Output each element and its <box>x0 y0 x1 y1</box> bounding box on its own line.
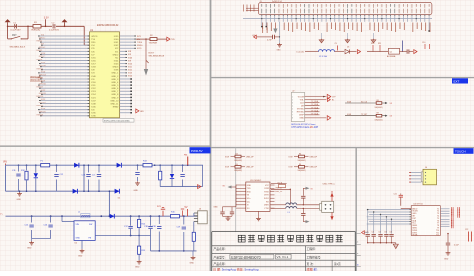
svg-text:IO3: IO3 <box>128 54 131 56</box>
svg-text:R15: R15 <box>142 250 145 252</box>
svg-text:产: 产 <box>357 252 359 255</box>
svg-text:GND: GND <box>27 248 32 250</box>
svg-text:10K(0402): 10K(0402) <box>298 160 306 162</box>
svg-text:工程师编号:: 工程师编号: <box>307 255 322 259</box>
svg-text:IO19: IO19 <box>41 81 45 83</box>
svg-text:U3 CH340C: U3 CH340C <box>250 180 262 182</box>
svg-text:C20: C20 <box>365 231 368 233</box>
svg-text:RST: RST <box>12 35 17 37</box>
svg-text:TP_SDA: TP_SDA <box>311 100 319 103</box>
svg-text:GPIO7: GPIO7 <box>39 56 45 58</box>
svg-text:C24: C24 <box>389 231 392 233</box>
svg-text:日 期: 5mingAug 修改: 5mingAug: 日 期: 5mingAug 修改: 5mingAug <box>213 266 259 271</box>
svg-text:GPIO19: GPIO19 <box>39 93 46 95</box>
svg-text:USB_DP: USB_DP <box>310 156 318 158</box>
svg-text:MIPI-DSI-FPC6P-0.5mm: MIPI-DSI-FPC6P-0.5mm <box>291 124 315 126</box>
svg-text:GND: GND <box>299 118 304 120</box>
svg-text:R4: R4 <box>236 164 238 166</box>
svg-text:VDDA: VDDA <box>412 234 418 237</box>
svg-text:IO19: IO19 <box>289 156 293 158</box>
svg-text:V3: V3 <box>247 195 249 197</box>
svg-text:SW: SW <box>89 224 92 226</box>
svg-text:LCD_BL: LCD_BL <box>297 51 305 53</box>
svg-text:IO4: IO4 <box>41 35 44 37</box>
svg-text:R4: R4 <box>299 154 301 156</box>
svg-text:TP_INT: TP_INT <box>361 114 368 116</box>
svg-text:2x20P-2.54: 2x20P-2.54 <box>272 1 282 3</box>
svg-text:GND_10: GND_10 <box>110 100 119 102</box>
svg-text:ESP32-8048S070: ESP32-8048S070 <box>231 255 261 259</box>
svg-text:NC: NC <box>115 57 119 59</box>
svg-text:IO19: IO19 <box>289 167 293 169</box>
svg-text:产品型号:: 产品型号: <box>214 255 226 259</box>
svg-text:HSYNC: HSYNC <box>297 112 305 114</box>
svg-text:TXD: TXD <box>171 39 175 41</box>
svg-text:GND: GND <box>17 199 22 201</box>
svg-text:GND: GND <box>247 185 252 187</box>
svg-text:10K(0402): 10K(0402) <box>375 107 383 109</box>
svg-text:AO3400A: AO3400A <box>387 55 396 58</box>
svg-text:GND: GND <box>213 206 218 208</box>
svg-text:BOOT: BOOT <box>149 53 155 55</box>
svg-text:VCC: VCC <box>265 185 270 187</box>
svg-text:R232: R232 <box>264 188 269 190</box>
svg-text:Q1: Q1 <box>390 51 393 53</box>
svg-text:R10: R10 <box>371 43 374 45</box>
svg-text:IO22: IO22 <box>41 90 45 92</box>
svg-text:TP_SDA: TP_SDA <box>311 109 319 112</box>
svg-text:GND_3: GND_3 <box>111 79 119 81</box>
svg-text:C21: C21 <box>394 194 397 196</box>
svg-text:USB_D-: USB_D- <box>275 188 282 190</box>
svg-text:3.3: 3.3 <box>390 103 393 105</box>
svg-text:U4 GT911: U4 GT911 <box>413 204 423 206</box>
svg-text:D5: D5 <box>347 47 349 49</box>
svg-text:GPIO13: GPIO13 <box>39 74 46 76</box>
svg-text:IO28: IO28 <box>41 108 45 110</box>
svg-text:USB_DP: USB_DP <box>310 167 318 169</box>
svg-text:10K(0402): 10K(0402) <box>298 170 306 172</box>
svg-text:IO9: IO9 <box>128 60 131 62</box>
svg-text:TXD: TXD <box>247 188 251 190</box>
svg-text:TXD/R0R: TXD/R0R <box>149 43 158 45</box>
svg-text:页 次:: 页 次: <box>307 262 314 266</box>
svg-text:IO13: IO13 <box>41 62 45 64</box>
svg-text:GND_1: GND_1 <box>111 73 119 75</box>
svg-text:GND_4: GND_4 <box>111 82 119 84</box>
svg-text:5V: 5V <box>185 206 188 209</box>
svg-text:D4: D4 <box>118 198 120 200</box>
svg-text:IO25: IO25 <box>41 99 45 101</box>
svg-text:IO11: IO11 <box>128 67 132 69</box>
svg-text:IO12: IO12 <box>128 70 132 72</box>
svg-text:R0R(1K): R0R(1K) <box>32 30 41 32</box>
svg-text:VIN: VIN <box>3 162 7 164</box>
svg-text:EXIO20: EXIO20 <box>37 96 44 98</box>
svg-text:GND: GND <box>135 267 140 269</box>
svg-text:C23: C23 <box>384 231 387 233</box>
svg-text:TP_SDA: TP_SDA <box>311 106 319 109</box>
svg-text:IO46: IO46 <box>128 57 132 59</box>
svg-text:IO08: IO08 <box>347 114 351 116</box>
svg-text:IO10: IO10 <box>41 53 45 55</box>
svg-text:产: 产 <box>357 241 359 244</box>
svg-text:0.1uF: 0.1uF <box>454 245 460 247</box>
svg-text:0.1uF/16V: 0.1uF/16V <box>11 30 22 32</box>
svg-text:GND: GND <box>78 256 83 258</box>
svg-text:EXIO26: EXIO26 <box>37 114 44 116</box>
svg-text:C22: C22 <box>378 231 381 233</box>
svg-text:产品名称:: 产品名称: <box>214 247 226 251</box>
svg-text:IO8: IO8 <box>128 51 131 53</box>
svg-text:GPIO10: GPIO10 <box>39 65 46 67</box>
svg-text:EXIO11: EXIO11 <box>37 68 43 70</box>
svg-text:FB1: FB1 <box>184 154 187 156</box>
svg-text:GND_8: GND_8 <box>111 94 119 96</box>
svg-text:SW-SMD4.8x4.8: SW-SMD4.8x4.8 <box>10 47 26 49</box>
svg-text:GPIO4: GPIO4 <box>39 47 45 49</box>
svg-text:C10: C10 <box>422 42 425 44</box>
svg-text:RXD0: RXD0 <box>137 45 143 47</box>
svg-text:GPIO16: GPIO16 <box>39 84 46 86</box>
svg-text:VSYNC: VSYNC <box>297 109 304 111</box>
svg-text:GND: GND <box>277 50 282 52</box>
svg-text:EXIO17: EXIO17 <box>37 87 44 89</box>
svg-text:日: 日 <box>357 263 359 266</box>
svg-text:R8: R8 <box>377 100 379 102</box>
svg-text:EXIO5: EXIO5 <box>37 50 43 52</box>
svg-text:TP_SDA: TP_SDA <box>311 112 319 115</box>
svg-text:C21: C21 <box>371 231 374 233</box>
svg-text:10K(0402): 10K(0402) <box>375 120 383 122</box>
svg-text:USB_TYPE_C: USB_TYPE_C <box>323 183 336 185</box>
svg-text:IO19: IO19 <box>225 167 229 169</box>
svg-text:UD-: UD- <box>247 201 251 203</box>
svg-text:USB_D+: USB_D+ <box>275 191 283 193</box>
svg-text:EXIO2: EXIO2 <box>37 41 43 43</box>
svg-text:TOUCH: TOUCH <box>455 150 466 154</box>
svg-text:3.3: 3.3 <box>390 116 393 118</box>
svg-text:SD_CS: SD_CS <box>361 101 368 103</box>
svg-text:GND_6: GND_6 <box>111 88 119 90</box>
svg-text:TP_SDA: TP_SDA <box>311 103 319 106</box>
svg-text:ESP32-WROOM-32: ESP32-WROOM-32 <box>97 24 119 27</box>
svg-text:R8: R8 <box>377 113 379 115</box>
svg-text:底图 封:: 底图 封: <box>307 266 318 271</box>
svg-text:GND_7: GND_7 <box>111 91 119 93</box>
svg-text:0.1uF/16V: 0.1uF/16V <box>49 30 60 32</box>
svg-text:3.3V: 3.3V <box>44 17 49 20</box>
svg-text:GND_11: GND_11 <box>110 103 119 105</box>
svg-text:R4: R4 <box>299 164 301 166</box>
svg-text:EPAD: EPAD <box>113 106 119 109</box>
svg-text:第1页: 第1页 <box>334 262 341 266</box>
svg-text:GPIO1: GPIO1 <box>39 38 45 40</box>
svg-text:EXIO23: EXIO23 <box>37 105 44 107</box>
svg-text:CTP-GPIO-Clock-I2C-40P: CTP-GPIO-Clock-I2C-40P <box>291 127 318 129</box>
svg-text:R4: R4 <box>236 154 238 156</box>
svg-text:GPIO25: GPIO25 <box>39 111 46 113</box>
svg-text:工程师:: 工程师: <box>307 247 316 251</box>
svg-text:GND_2: GND_2 <box>111 76 119 78</box>
svg-text:10K(0402): 10K(0402) <box>234 160 242 162</box>
svg-text:V3. V1.1: V3. V1.1 <box>277 255 289 259</box>
svg-text:GND: GND <box>76 238 81 240</box>
svg-text:IO08: IO08 <box>347 101 351 103</box>
svg-text:L1: L1 <box>78 212 80 214</box>
svg-text:L3: L3 <box>288 212 290 214</box>
svg-text:TXD0: TXD0 <box>137 42 143 44</box>
svg-text:GND: GND <box>444 259 449 261</box>
svg-text:VCOM: VCOM <box>298 96 304 98</box>
svg-text:GND_5: GND_5 <box>111 85 119 87</box>
svg-text:IO14: IO14 <box>128 76 132 78</box>
svg-text:GND_9: GND_9 <box>111 97 119 99</box>
svg-text:EXT: EXT <box>454 80 460 84</box>
svg-text:C22: C22 <box>465 229 468 231</box>
svg-text:CLK: CLK <box>300 102 305 104</box>
svg-text:BL: BL <box>332 100 334 102</box>
svg-text:VIN: VIN <box>76 224 80 226</box>
svg-text:IO7: IO7 <box>41 44 44 46</box>
svg-text:10K(0402): 10K(0402) <box>234 170 242 172</box>
svg-text:T12: T12 <box>436 235 439 237</box>
svg-text:GND2: GND2 <box>113 54 120 56</box>
svg-text:RXD: RXD <box>247 191 252 193</box>
svg-text:GND3: GND3 <box>113 67 120 69</box>
svg-text:SW_SMD4.8X4.8: SW_SMD4.8X4.8 <box>149 56 166 58</box>
svg-text:GND: GND <box>190 263 195 265</box>
svg-text:L2 4.7uH: L2 4.7uH <box>319 56 328 58</box>
svg-text:ESP32-WROOM-32(16MB): ESP32-WROOM-32(16MB) <box>104 120 130 122</box>
svg-text:R11: R11 <box>378 43 381 45</box>
svg-text:IO10: IO10 <box>128 63 132 65</box>
svg-text:IO13: IO13 <box>128 73 132 75</box>
svg-text:GPIO22: GPIO22 <box>39 102 46 104</box>
svg-text:5V_R: 5V_R <box>277 182 282 184</box>
svg-text:C9: C9 <box>335 43 337 45</box>
svg-text:USB_DP: USB_DP <box>246 167 254 169</box>
svg-text:EXIO8: EXIO8 <box>37 59 43 61</box>
svg-text:IO19: IO19 <box>225 156 229 158</box>
svg-text:GND: GND <box>134 190 139 192</box>
svg-text:LED: LED <box>140 111 144 113</box>
svg-text:PWR-5V: PWR-5V <box>191 149 203 153</box>
svg-text:USB_DP: USB_DP <box>246 156 254 158</box>
svg-text:IO16: IO16 <box>41 71 45 73</box>
svg-text:DISP: DISP <box>299 115 304 117</box>
svg-text:GPIO1: GPIO1 <box>91 36 98 38</box>
svg-text:产品名称:: 产品名称: <box>214 262 226 266</box>
